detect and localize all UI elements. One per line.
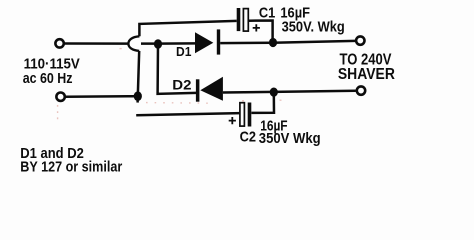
- wire J3 stub down: [136, 96, 139, 102]
- wire C1 right lead down to J2: [248, 21, 272, 43]
- diode D1: [195, 29, 220, 54]
- terminal bottom-left input: [56, 93, 64, 101]
- capacitor C1 plates: [237, 8, 249, 31]
- wire D1 cathode to J2: [220, 41, 273, 44]
- svg-text:350V. Wkg: 350V. Wkg: [282, 19, 345, 36]
- svg-text:350V Wkg: 350V Wkg: [259, 130, 321, 147]
- svg-text:BY 127 or similar: BY 127 or similar: [20, 160, 122, 176]
- svg-text:ac 60 Hz: ac 60 Hz: [23, 70, 73, 87]
- svg-text:D2: D2: [172, 77, 191, 92]
- wire D2 anode to J4: [223, 91, 274, 94]
- wire J2 to top output terminal: [273, 41, 355, 43]
- wire top rail C1 left lead: [139, 21, 236, 36]
- svg-text:C2: C2: [240, 129, 256, 146]
- scan artifact red dashes: [58, 49, 282, 121]
- C2 polarity plus: [229, 117, 236, 124]
- capacitor C2 plates: [240, 103, 251, 127]
- terminal top-left input: [55, 39, 63, 47]
- terminal bottom-right output: [357, 86, 365, 94]
- wire J1 to D1 anode: [158, 42, 196, 45]
- node junction J1: [154, 39, 162, 48]
- wire J1 down and right to D2 cathode: [158, 44, 196, 94]
- diode D2: [196, 77, 223, 102]
- wire top input after hop: [141, 42, 158, 45]
- wire top input horizontal: [65, 42, 130, 45]
- node junction J3: [134, 91, 142, 101]
- node junction J4: [270, 88, 278, 97]
- wire hop over input line: [128, 36, 139, 51]
- svg-text:C1: C1: [259, 4, 275, 21]
- wire C2 left lead: [136, 113, 240, 115]
- C1 polarity plus: [253, 24, 260, 31]
- wire vertical to J3: [138, 51, 139, 96]
- svg-text:D1: D1: [176, 44, 191, 59]
- svg-text:SHAVER: SHAVER: [338, 66, 395, 83]
- node junction J2: [269, 38, 277, 47]
- wire bottom input horizontal: [66, 95, 138, 98]
- wire J4 to bottom output terminal: [274, 91, 356, 92]
- wire J4 down to C2 right lead: [251, 92, 274, 113]
- terminal top-right output: [356, 36, 364, 44]
